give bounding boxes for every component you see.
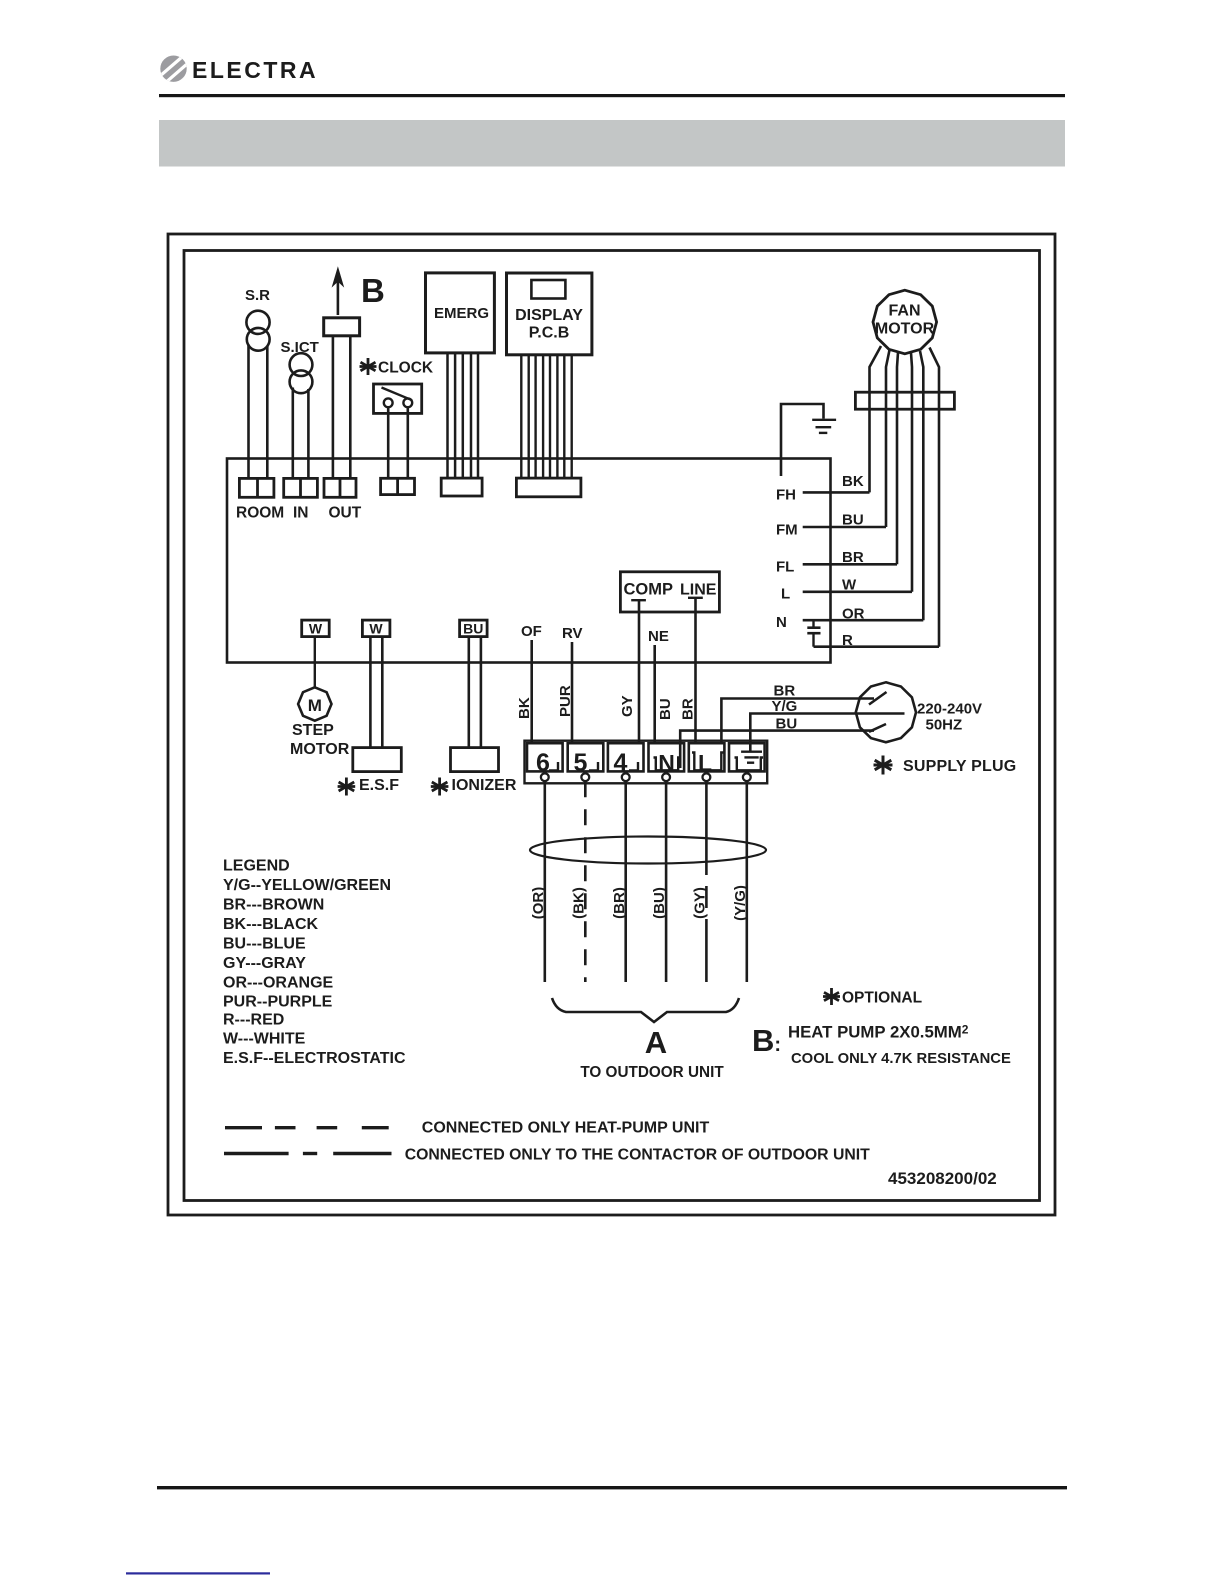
svg-text:IN: IN (293, 505, 309, 522)
terminal screws (541, 773, 751, 781)
svg-text:GY---GRAY: GY---GRAY (223, 955, 306, 972)
svg-text:(GY): (GY) (692, 887, 709, 919)
svg-text:B:: B: (752, 1023, 781, 1058)
connector IN (284, 478, 318, 497)
svg-text:OUT: OUT (329, 505, 362, 522)
capacitor on N line (807, 620, 820, 647)
connector EMERG (441, 478, 482, 496)
dash sample contactor (224, 1152, 392, 1155)
terminal cell 5 (568, 743, 604, 771)
connector clock (381, 478, 415, 494)
svg-text:FM: FM (776, 522, 798, 539)
asterisk ionizer (431, 778, 449, 796)
footer rule (157, 1486, 1067, 1489)
svg-text:B: B (361, 272, 385, 309)
terminal cell L (689, 743, 725, 771)
svg-text:LINE: LINE (680, 582, 717, 599)
wire RV to terminal 5 (571, 642, 574, 743)
svg-text:(BR): (BR) (611, 887, 628, 919)
svg-text:GY: GY (619, 695, 636, 717)
svg-text:A: A (645, 1025, 667, 1060)
svg-text:(BU): (BU) (651, 887, 668, 919)
svg-text:W: W (309, 621, 323, 637)
earth symbol in cell (735, 752, 764, 771)
connector B top block (324, 318, 360, 336)
ground wire (781, 404, 824, 476)
wire LINE to terminal L (694, 598, 697, 744)
terminal cell 4 (608, 743, 644, 771)
module EMERG box (426, 273, 495, 353)
fan wire R (930, 348, 940, 647)
fan wire OR (920, 351, 923, 620)
Electra logo mark (160, 55, 192, 92)
svg-text:E.S.F--ELECTROSTATIC: E.S.F--ELECTROSTATIC (223, 1050, 406, 1067)
DISPLAY PCB window (531, 280, 565, 299)
svg-text:FAN: FAN (889, 303, 921, 320)
wire ionizer left (467, 637, 470, 748)
fan wire BK (870, 346, 882, 492)
svg-text:COOL ONLY 4.7K RESISTANCE: COOL ONLY 4.7K RESISTANCE (791, 1051, 1011, 1067)
wire S.ICT left (291, 388, 294, 479)
svg-text:BU: BU (842, 512, 864, 529)
wire S.ICT right (307, 389, 310, 478)
wire FH-BK (803, 491, 870, 494)
wire BK to outdoor dashed (584, 781, 587, 982)
wire clock left (387, 407, 390, 478)
asterisk supply plug (874, 756, 893, 775)
svg-text:L: L (698, 750, 712, 776)
asterisk optional (823, 988, 840, 1005)
fan wire BR (897, 353, 898, 565)
svg-text:NE: NE (648, 628, 669, 645)
terminal block outer (525, 741, 768, 784)
svg-text:Y/G: Y/G (772, 698, 798, 715)
svg-text:SUPPLY PLUG: SUPPLY PLUG (903, 758, 1016, 775)
svg-text:BK: BK (516, 697, 533, 719)
ionizer box (451, 748, 499, 772)
wire OUT right (349, 336, 352, 479)
svg-text:OF: OF (521, 623, 542, 640)
svg-text:FH: FH (776, 487, 796, 504)
wire clock right (406, 407, 409, 478)
fan wire W (911, 353, 912, 592)
svg-text:Y/G--YELLOW/GREEN: Y/G--YELLOW/GREEN (223, 877, 391, 894)
W box step motor (302, 620, 330, 637)
wire R (814, 645, 940, 648)
svg-text:CONNECTED ONLY TO THE CONTACTO: CONNECTED ONLY TO THE CONTACTOR OF OUTDO… (405, 1147, 870, 1164)
svg-text:STEP: STEP (292, 722, 334, 739)
svg-text:MOTOR: MOTOR (875, 321, 935, 338)
wire S.R left (247, 345, 250, 479)
wire N-OR (803, 619, 924, 622)
header rule (159, 94, 1065, 97)
svg-text:BR: BR (680, 698, 697, 720)
svg-text:S.R: S.R (245, 287, 270, 304)
arrow B (333, 268, 344, 315)
svg-text:453208200/02: 453208200/02 (888, 1169, 997, 1188)
svg-text:N: N (658, 750, 675, 776)
svg-text:MOTOR: MOTOR (290, 741, 350, 758)
connector ROOM (239, 478, 274, 497)
fan wire BU (886, 350, 890, 527)
terminal cell 6 (527, 743, 563, 771)
outer border frame (168, 234, 1055, 1215)
svg-text:BR---BROWN: BR---BROWN (223, 897, 324, 914)
controller PCB outline (227, 459, 831, 663)
svg-text:50HZ: 50HZ (926, 717, 963, 734)
DISPLAY wires (521, 355, 571, 478)
step motor M (298, 687, 331, 720)
wire COMP to terminal 4 (638, 600, 641, 743)
sensor S.R symbol (246, 311, 269, 351)
svg-text:ELECTRA: ELECTRA (192, 57, 318, 83)
svg-text:CONNECTED ONLY HEAT-PUMP UNIT: CONNECTED ONLY HEAT-PUMP UNIT (422, 1120, 710, 1137)
svg-text:OR: OR (842, 606, 865, 623)
svg-text:BK: BK (842, 473, 864, 490)
svg-text:OPTIONAL: OPTIONAL (842, 990, 922, 1007)
fan connector bar (855, 392, 954, 409)
terminal cell earth (729, 743, 765, 771)
clock switch contacts (382, 388, 413, 408)
wire OUT left (332, 336, 335, 479)
wire ESF left (369, 637, 372, 748)
brace A (552, 998, 739, 1022)
svg-text:COMP: COMP (624, 581, 674, 599)
wire YG to outdoor (745, 781, 748, 982)
svg-text:(Y/G): (Y/G) (732, 885, 749, 921)
svg-text:R---RED: R---RED (223, 1012, 284, 1029)
svg-text:EMERG: EMERG (434, 305, 489, 322)
svg-text:M: M (308, 696, 322, 715)
title band (159, 120, 1065, 167)
connector DISPLAY (516, 478, 581, 497)
COMP LINE box (620, 572, 719, 612)
wire ESF right (381, 637, 384, 748)
svg-text:DISPLAY: DISPLAY (515, 307, 583, 324)
W box ESF (362, 620, 390, 637)
svg-text:P.C.B: P.C.B (529, 325, 570, 342)
svg-text:(OR): (OR) (530, 887, 547, 920)
wire YG from supply plug to earth terminal (750, 714, 904, 752)
svg-text:W---WHITE: W---WHITE (223, 1031, 306, 1048)
wire GY to outdoor dash pattern (705, 781, 708, 982)
clock switch box (374, 384, 422, 413)
wire NE to terminal N (653, 645, 656, 743)
svg-text:220-240V: 220-240V (917, 701, 982, 718)
svg-text:FL: FL (776, 559, 794, 576)
wire S.R right (266, 346, 269, 478)
svg-text:BU---BLUE: BU---BLUE (223, 936, 306, 953)
wire BR from supply plug to L (721, 699, 874, 743)
svg-text:E.S.F: E.S.F (359, 777, 399, 794)
ESF box (353, 748, 402, 772)
wire BU to outdoor (665, 781, 668, 982)
wire FM-BU (803, 526, 886, 529)
svg-text:HEAT PUMP 2X0.5MM2: HEAT PUMP 2X0.5MM2 (788, 1023, 969, 1042)
wire L-W (803, 590, 912, 593)
asterisk ESF (338, 778, 356, 796)
wire OR to outdoor (543, 781, 546, 982)
svg-text:N: N (776, 614, 787, 631)
svg-text:BU: BU (463, 621, 483, 637)
svg-text:R: R (842, 632, 853, 649)
supply plug body (856, 682, 916, 742)
svg-text:L: L (781, 586, 790, 603)
svg-text:ROOM: ROOM (236, 505, 284, 522)
svg-text:BR: BR (774, 683, 796, 700)
svg-text:TO OUTDOOR UNIT: TO OUTDOOR UNIT (580, 1064, 724, 1081)
svg-text:BK---BLACK: BK---BLACK (223, 916, 319, 933)
asterisk clock (360, 358, 377, 375)
inner border frame (184, 251, 1040, 1201)
wire ionizer right (480, 637, 483, 748)
wire OF to terminal 6 (530, 640, 533, 743)
ground symbol (812, 420, 836, 433)
wire BU from supply plug to N (680, 731, 874, 768)
svg-text:W: W (842, 577, 857, 594)
svg-text:OR---ORANGE: OR---ORANGE (223, 975, 334, 992)
svg-text:W: W (369, 621, 383, 637)
svg-text:(BK): (BK) (571, 887, 588, 919)
svg-text:BR: BR (842, 549, 864, 566)
connector OUT (324, 478, 356, 497)
legend block (223, 858, 406, 1068)
wire BR to outdoor (624, 781, 627, 982)
wire W to step motor (314, 637, 316, 688)
sensor S.ICT symbol (290, 353, 313, 393)
svg-text:PUR--PURPLE: PUR--PURPLE (223, 994, 333, 1011)
cable ellipse (530, 837, 766, 864)
svg-text:BU: BU (776, 716, 798, 733)
svg-text:CLOCK: CLOCK (378, 360, 434, 377)
EMERG wires (448, 353, 479, 478)
svg-text:LEGEND: LEGEND (223, 858, 290, 875)
svg-text:BU: BU (657, 698, 674, 720)
terminal cell N (649, 743, 685, 771)
fan motor body (873, 290, 937, 354)
svg-text:PUR: PUR (557, 685, 574, 717)
footer link line (126, 1572, 270, 1574)
module DISPLAY PCB box (507, 273, 592, 355)
wire FL-BR (803, 563, 897, 566)
BU box ionizer (460, 620, 488, 637)
svg-text:RV: RV (562, 625, 583, 642)
dash sample heat pump (225, 1126, 389, 1129)
svg-text:IONIZER: IONIZER (452, 777, 517, 794)
